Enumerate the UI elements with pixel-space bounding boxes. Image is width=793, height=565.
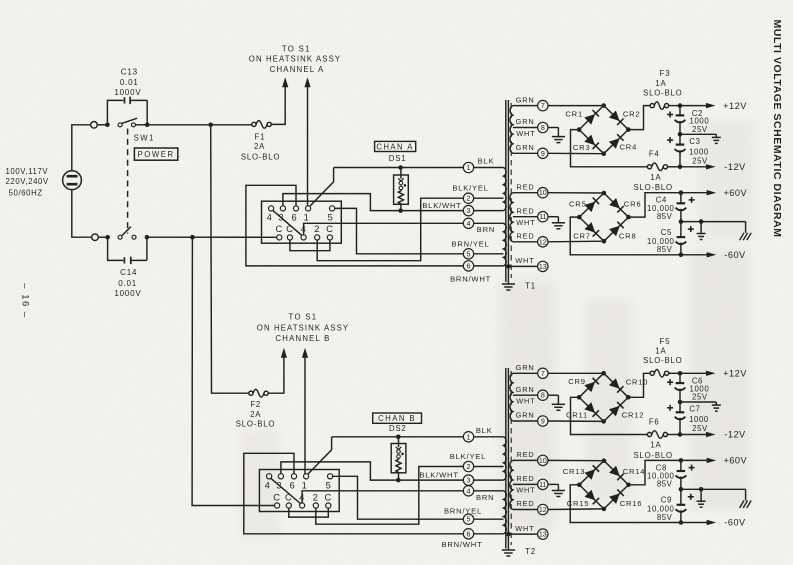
wire J2 to C14 node [98, 236, 107, 238]
chassis ground B [740, 489, 752, 508]
voltage selector plug XB outline [259, 470, 339, 512]
label title MULTI VOLTAGE SCHEMATIC DIAGRAM [771, 19, 783, 237]
arrow +60V A [681, 190, 716, 195]
ground C6 C7 mid [680, 402, 721, 411]
capacitor C6 [675, 373, 686, 402]
fuse F5 [650, 370, 669, 378]
wire bridge B plus to +60V [629, 193, 681, 217]
pin 1 T1 [463, 162, 473, 172]
pin 10 T2 [538, 455, 548, 465]
pin 5 T2 [463, 514, 473, 524]
selector XA top pins 4 3 6 1 5 [267, 206, 335, 223]
pin 4 T2 [463, 486, 473, 496]
fuse F3 [650, 102, 669, 110]
wire line split to F2 [211, 125, 249, 393]
label BRN/YEL A [452, 240, 490, 249]
arrow -12V A [680, 164, 716, 169]
diode CR2 [609, 111, 624, 126]
wire F5 to +12V [669, 372, 680, 374]
label F4 [633, 150, 672, 193]
ground C4 C5 mid [697, 222, 706, 240]
transformer T1 primary winding 2 [474, 223, 507, 266]
node neutral split [190, 235, 195, 240]
plus C5 [688, 226, 694, 232]
chassis ground A [740, 222, 752, 241]
label CR11 [566, 411, 588, 420]
wire selector B pin5 to BRN/YEL [333, 476, 464, 519]
wire pin12 to bridge D bottom [548, 508, 604, 511]
bridge CR13-16 frame [577, 458, 631, 511]
capacitor C13 [107, 97, 147, 125]
diode CR16 [609, 489, 624, 504]
voltage selector plug XA outline [262, 201, 342, 243]
ground C8 C9 mid [697, 489, 706, 507]
transformer T1 secondary winding 60V [510, 193, 538, 242]
label F5 [643, 337, 682, 365]
pin 3 T2 [463, 475, 473, 485]
wire plug to neutral [72, 190, 92, 238]
transformer T1 secondary winding 12V [510, 106, 538, 154]
wire F3 to +12V [669, 105, 680, 107]
label F3 [643, 69, 682, 97]
label +12V B [723, 369, 747, 379]
label +12V A [723, 101, 747, 111]
wire bridge C minus to F6 [571, 397, 648, 434]
label F2 [236, 400, 275, 429]
label BLK/YEL A [452, 184, 488, 193]
transformer T2 primary winding 2 [474, 491, 507, 534]
label DS2 [389, 424, 407, 433]
pin 1 T2 [463, 432, 473, 442]
wire selector A C jumper [290, 240, 330, 251]
arrow to S1 channel A left [282, 77, 288, 87]
label pin 8 T1 wirecolor [516, 117, 536, 138]
plus C6 [667, 379, 673, 385]
capacitor C7 [675, 402, 686, 435]
node DS2 bottom [396, 478, 401, 483]
selector XA jumper 4 to 4 [273, 210, 302, 235]
pin 9 T2 [538, 416, 548, 426]
selector XA bottom pins C C 4 2 C [276, 223, 334, 240]
node DS1 bottom [398, 208, 403, 213]
label C7 [689, 405, 709, 433]
pin 8 T2 [538, 390, 548, 400]
diode CR6 [609, 198, 624, 213]
arrow +12V A [680, 103, 716, 108]
diode CR5 [585, 198, 600, 213]
switch SW1 upper pole [118, 118, 137, 127]
label CR8 [619, 231, 637, 240]
pin 4 T1 [463, 218, 473, 228]
label pin 10 T2 wirecolor [516, 450, 534, 459]
capacitor C2 [675, 106, 686, 135]
pin 11 T1 [538, 212, 548, 222]
label DS1 [389, 154, 407, 163]
wire selector B pin2 to BLK/YEL [316, 467, 464, 525]
label CR10 [626, 377, 649, 386]
label CR7 [573, 231, 591, 240]
label F1 [241, 133, 280, 162]
label C5 [647, 228, 675, 254]
label CR13 [563, 467, 586, 476]
label pin 9 T1 wirecolor [516, 143, 535, 152]
diode CR11 [584, 402, 599, 417]
pin 7 T1 [538, 100, 548, 110]
ground T1 core [502, 282, 515, 290]
label F6 [633, 417, 672, 460]
node C14 right [145, 235, 150, 240]
switch SW1 gang dashed link [127, 129, 129, 234]
capacitor C3 [675, 134, 686, 167]
pin 3 T1 [463, 205, 473, 215]
label pin 8 T2 wirecolor [516, 385, 536, 406]
label CR6 [624, 199, 642, 208]
wire pin9 to bridge C bottom [548, 420, 604, 422]
label -12V B [724, 430, 746, 440]
label POWER box [134, 148, 177, 160]
pin 12 T2 [538, 504, 548, 514]
label BRN/WHT B [441, 540, 482, 549]
pin 7 T2 [538, 368, 548, 378]
wire mid to grounds [681, 221, 746, 223]
diode CR12 [609, 402, 624, 417]
transformer T1 primary winding 1 [474, 168, 506, 211]
wire selector A pin6 to BRN/WHT [246, 185, 463, 266]
transformer T2 core [506, 368, 511, 549]
plus C9 [688, 494, 694, 500]
fuse F2 [249, 389, 268, 397]
transformer T2 shield tap [506, 532, 537, 537]
arrow to S1 channel B right [302, 348, 308, 358]
fuse F4 [647, 163, 667, 171]
label TO S1 channel A [249, 45, 341, 75]
node C8 C9 mid [679, 487, 684, 492]
fuse F6 [647, 431, 667, 439]
node DS1 top [398, 165, 403, 170]
node C4 top [679, 190, 684, 195]
label +60V A [723, 188, 747, 198]
wire BLK to T1 pin 1 [334, 167, 464, 169]
wire bridge C plus to F5 [628, 373, 650, 397]
label pin 13 T1 wirecolor [515, 256, 534, 265]
label CR12 [622, 410, 645, 419]
selector XB jumper 4 to 4 [271, 478, 301, 503]
arrow +12V B [680, 371, 716, 376]
bridge CR1-4 frame [577, 103, 631, 156]
arrow -12V B [680, 432, 716, 437]
label pin 10 T1 wirecolor [516, 182, 534, 191]
selector XB bottom pins C C 4 2 C [273, 491, 332, 508]
label C4 [647, 196, 675, 221]
node mid ground stub [699, 219, 704, 224]
plus C3 [667, 137, 673, 143]
node C2 C3 mid [678, 132, 683, 137]
label +60V B [723, 456, 747, 466]
wire plug to line [72, 125, 91, 171]
label BLK/WHT A [422, 201, 461, 210]
capacitor C4 [676, 193, 687, 222]
wire pin7 to bridge A top [548, 105, 604, 107]
label page number [20, 283, 31, 318]
wire selector A pin4 to BRN [304, 223, 464, 235]
wire selector B pin3 to BLK/WHT [281, 462, 463, 480]
fuse F1 [252, 121, 272, 129]
node C13 right [145, 123, 150, 128]
label pin 12 T1 wirecolor [516, 232, 534, 241]
pin 12 T1 [538, 237, 548, 247]
lamp DS1 [394, 168, 409, 209]
lamp DS2 [391, 437, 406, 480]
node DS2 top [396, 435, 401, 440]
wire bridge A plus to F3 [628, 106, 650, 130]
pin 5 T1 [463, 249, 473, 259]
label pin 11 T1 wirecolor [516, 206, 535, 227]
transformer T1 shield tap [506, 264, 537, 269]
diode CR4 [609, 134, 624, 149]
label pin 12 T2 wirecolor [516, 499, 534, 508]
arrow to S1 channel B left [281, 348, 287, 358]
ac plug P1 [63, 171, 82, 190]
diode CR13 [585, 465, 600, 480]
label BRN/YEL B [444, 507, 482, 516]
ground pin 8 T1 [548, 128, 565, 143]
bridge CR5-8 frame [577, 191, 631, 244]
wire selector A pin3 to BLK/WHT [283, 194, 463, 211]
plus C8 [689, 465, 695, 471]
wire line to F1 [147, 124, 252, 126]
pin 10 T1 [538, 188, 548, 198]
label TO S1 channel B [257, 313, 349, 344]
node C9 bottom [679, 520, 684, 525]
wire F1 to arrow [271, 87, 285, 124]
pin 13 T1 [538, 261, 548, 271]
diode CR14 [609, 466, 624, 481]
wire J1 to C13 node [97, 124, 107, 126]
plus C7 [667, 405, 673, 411]
label T2 [525, 547, 536, 556]
ground pin 11 T2 [548, 484, 565, 496]
label CR15 [567, 499, 590, 508]
ground pin 8 T2 [548, 395, 565, 410]
diode CR15 [585, 490, 600, 505]
wire bridge B minus to -60V [570, 217, 681, 255]
switch SW1 lower pole [118, 227, 136, 240]
wire selector A pin5 to BRN/YEL [335, 208, 464, 253]
diode CR3 [584, 135, 599, 150]
label CR2 [623, 110, 641, 119]
wire SW1 to node [135, 124, 147, 126]
node line split [208, 123, 213, 128]
label pin 9 T2 wirecolor [516, 411, 535, 420]
ground C2 C3 mid [680, 134, 721, 143]
wire BLK to T2 pin 1 [332, 436, 464, 438]
pin 6 T1 [463, 261, 473, 271]
arrow +60V B [681, 458, 716, 463]
wire selector A pin1 to BLK [310, 168, 334, 207]
wire F4 to -12V [668, 166, 681, 168]
wire bridge D minus to -60V [570, 485, 681, 523]
node C5 bottom [679, 253, 684, 258]
label CR5 [569, 199, 587, 208]
wire selector B C jumper [289, 508, 329, 517]
diode CR9 [584, 378, 599, 393]
label pin 11 T2 wirecolor [516, 474, 535, 495]
wire selector B pin6 to BRN/WHT [244, 453, 463, 534]
wire arrow to selector pin 1 A [307, 87, 309, 206]
diode CR10 [609, 378, 624, 393]
wire pin12 to bridge B bottom [548, 240, 604, 243]
diode CR8 [609, 222, 624, 237]
node C8 top [679, 458, 684, 463]
node C3 bottom [678, 165, 683, 170]
node C14 left [105, 235, 110, 240]
label CR14 [623, 467, 646, 476]
label -12V A [724, 162, 746, 172]
label BLK A [478, 156, 495, 165]
label C14 [114, 268, 141, 298]
label C8 [647, 463, 675, 488]
wire bridge D plus to +60V [629, 460, 681, 484]
wire pin9 to bridge A bottom [548, 152, 604, 154]
wire selector B pin4 to BRN [302, 491, 463, 503]
label CHAN B box [373, 413, 422, 423]
diode CR7 [585, 222, 600, 237]
label CR3 [573, 143, 591, 152]
label C3 [689, 137, 709, 165]
pin 11 T2 [538, 479, 548, 489]
label BLK/YEL B [450, 452, 486, 461]
wire arrow to selector pin 1 B [304, 357, 306, 474]
plus C4 [689, 197, 695, 203]
label CR4 [620, 143, 638, 152]
node C7 bottom [678, 432, 683, 437]
wire neutral split to selector B [192, 237, 274, 505]
capacitor C14 [108, 237, 147, 264]
wire mid to grounds B [681, 488, 746, 490]
label C9 [647, 496, 675, 522]
wire F6 to -12V [668, 434, 681, 436]
label -60V B [724, 518, 746, 528]
label CR16 [620, 499, 643, 508]
label BRN A [477, 225, 495, 234]
wire F2 to arrow [268, 357, 284, 393]
diode CR1 [584, 110, 599, 125]
node C6 C7 mid [678, 400, 683, 405]
wire pin10 to bridge D top [548, 459, 604, 461]
transformer T2 primary winding 1 [474, 437, 506, 480]
label -60V A [724, 250, 746, 260]
wire pin7 to bridge C top [548, 372, 604, 374]
capacitor C9 [676, 489, 687, 522]
arrow -60V B [681, 520, 716, 525]
ground pin 11 T1 [548, 217, 565, 229]
label C13 [114, 67, 141, 97]
ground T2 core [502, 549, 515, 557]
connector J1 line [91, 122, 98, 129]
wire selector B pin1 to BLK [308, 437, 332, 474]
pin 6 T2 [463, 529, 473, 539]
node C4 C5 mid [679, 219, 684, 224]
label CHAN A box [375, 141, 416, 151]
label C2 [690, 109, 710, 134]
pin 2 T2 [463, 461, 473, 471]
bridge CR9-12 frame [577, 371, 631, 424]
label P1 voltages [6, 167, 49, 198]
transformer T2 secondary winding 60V [510, 460, 538, 509]
wire bridge A minus to F4 [571, 130, 648, 167]
node mid ground stub B [699, 487, 704, 492]
label pin 7 T2 wirecolor [516, 363, 535, 372]
label CR9 [568, 377, 586, 386]
label BRN/WHT A [450, 274, 491, 283]
transformer T2 secondary winding 12V [510, 373, 538, 421]
selector XB top pins 4 3 6 1 5 [265, 474, 333, 491]
label BLK/WHT B [419, 471, 458, 480]
label C6 [690, 377, 710, 402]
plus C2 [667, 112, 673, 118]
label BLK B [476, 426, 493, 435]
pin 9 T1 [538, 148, 548, 158]
capacitor C5 [676, 222, 687, 255]
pin 2 T1 [463, 193, 473, 203]
node C13 left [105, 123, 110, 128]
arrow to S1 channel A right [304, 77, 310, 87]
pin 13 T2 [538, 529, 548, 539]
arrow -60V A [681, 252, 716, 257]
capacitor C8 [676, 460, 687, 489]
label pin 13 T2 wirecolor [515, 524, 534, 533]
pin 8 T1 [538, 122, 548, 132]
wire pin10 to bridge B top [548, 192, 604, 194]
node C2 top [678, 103, 683, 108]
label SW1 [134, 134, 155, 143]
label CR1 [565, 109, 583, 118]
label T1 [525, 282, 536, 291]
wire selector A pin2 to BLK/YEL [317, 198, 463, 261]
connector J2 neutral [92, 234, 99, 241]
transformer T1 core [506, 100, 511, 282]
label BRN B [476, 493, 494, 502]
label pin 7 T1 wirecolor [516, 95, 535, 104]
node C6 top [678, 371, 683, 376]
wire neutral to selector A [147, 236, 277, 238]
